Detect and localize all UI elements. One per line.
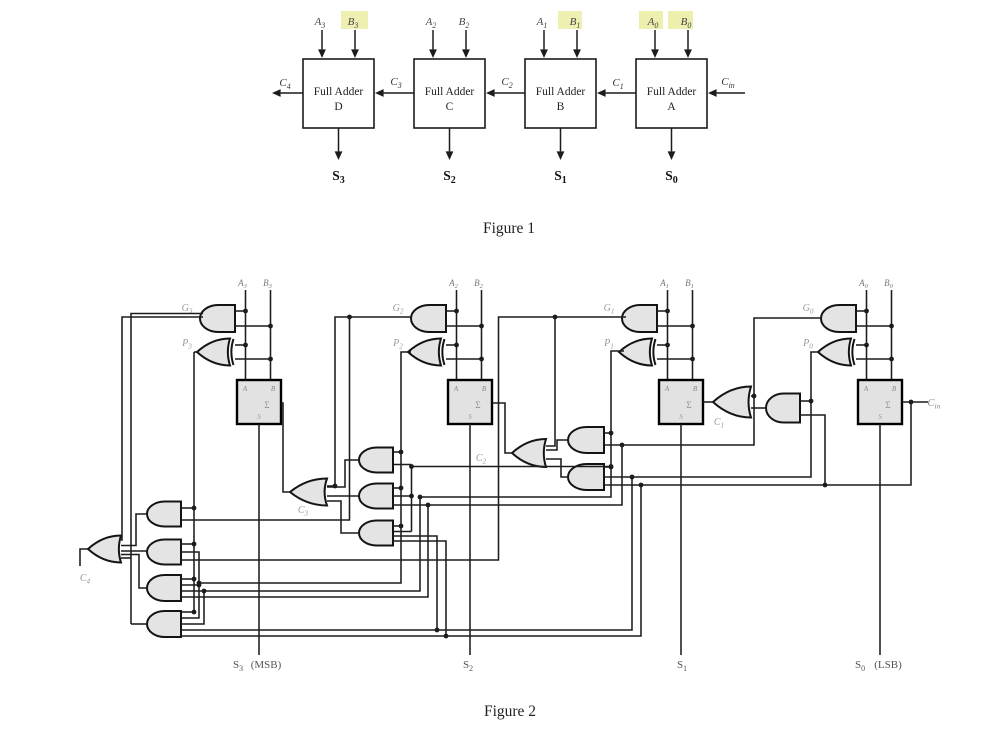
sum box bit 1: [659, 380, 703, 424]
C0 tap to AND P1P0C0: [604, 484, 641, 486]
P1 tap to AND P1G0: [604, 432, 611, 434]
sum S1 arrow: [560, 128, 562, 151]
OR gate C4: [88, 536, 121, 563]
C0 branch down: [181, 485, 641, 636]
svg-text:A: A: [242, 385, 248, 393]
G0 tap to AND P1G0: [604, 444, 622, 446]
full adder C box: [414, 59, 485, 128]
carry C1 arrow: [606, 92, 636, 94]
input B0 arrow: [687, 30, 689, 49]
OR gate C3: [290, 479, 327, 506]
svg-text:B: B: [271, 385, 276, 393]
P2 tap to AND P2G1: [393, 451, 401, 453]
P2 tap to AND P3P2P1P0C0: [181, 583, 199, 618]
input B2 arrow: [465, 30, 467, 49]
AND gate P1P0C0: [568, 464, 604, 490]
Cin wire to sum box bit0: [902, 401, 928, 403]
G0 column down: [181, 505, 428, 597]
P3 tap to AND P3P2P1P0C0: [181, 611, 194, 613]
svg-text:B: B: [557, 101, 565, 113]
AND gate P3P2P1G0: [147, 575, 181, 601]
carry Cin input arrow: [717, 92, 745, 94]
full adder A box: [636, 59, 707, 128]
input B1 arrow: [576, 30, 578, 49]
AND gate G3: [200, 305, 235, 332]
P3 tap to AND P3P2P1G0: [181, 578, 194, 580]
net G0 wire: [393, 318, 820, 505]
AND gate P3G2: [147, 502, 181, 527]
svg-text:Σ: Σ: [885, 400, 890, 410]
svg-text:A: A: [667, 101, 676, 113]
highlight on label B1: [558, 11, 582, 29]
C0 branch up to AND P2P1P0C0: [393, 541, 446, 636]
net G2 wire: [327, 317, 412, 486]
input A2 arrow: [432, 30, 434, 49]
svg-text:B: B: [482, 385, 487, 393]
svg-text:S: S: [468, 413, 472, 421]
wire AND P3P2P1P0C0 out join: [131, 623, 147, 625]
svg-text:(LSB): (LSB): [874, 659, 902, 671]
AND gate G0: [821, 305, 856, 332]
AND G0 input stubs: [856, 310, 867, 312]
P1 branch to AND P3P2P1P0C0: [181, 591, 204, 624]
AND gate P3P2P1P0C0: [147, 611, 181, 637]
wire AND P2G1 out to OR C3: [327, 460, 360, 487]
P3 tap to AND P3P2G1: [181, 543, 194, 545]
highlight on label A0: [639, 11, 663, 29]
svg-text:B: B: [693, 385, 698, 393]
svg-text:Figure 1: Figure 1: [483, 220, 535, 237]
svg-text:S: S: [257, 413, 261, 421]
net B0 vertical line: [891, 290, 893, 380]
wire AND P3P2P1G0 out to OR C4: [121, 555, 147, 589]
svg-text:Σ: Σ: [264, 400, 269, 410]
svg-text:B: B: [892, 385, 897, 393]
net C0 wire: [641, 402, 911, 485]
wire AND P3G2 out to OR C4: [121, 514, 147, 546]
sum box bit 3: [237, 380, 281, 424]
svg-text:Full Adder: Full Adder: [425, 86, 475, 98]
sum S1 output wire: [680, 424, 682, 655]
sum S2 arrow: [449, 128, 451, 151]
sum S2 output wire: [469, 424, 471, 655]
svg-text:S: S: [679, 413, 683, 421]
AND gate P1G0: [568, 427, 604, 453]
P0 tap to AND P0C0: [800, 400, 811, 402]
svg-text:Σ: Σ: [475, 400, 480, 410]
XOR P2 input stubs: [446, 344, 457, 346]
svg-text:Full Adder: Full Adder: [314, 86, 364, 98]
AND gate P3P2G1: [147, 540, 181, 565]
svg-text:A: A: [664, 385, 670, 393]
OR gate C1: [713, 387, 751, 418]
P1 stub to AND P2G1: [393, 464, 412, 466]
net P2 wire: [181, 352, 411, 583]
G2 branch to AND P3G2: [181, 317, 350, 520]
svg-text:A: A: [863, 385, 869, 393]
svg-text:Figure 2: Figure 2: [484, 703, 536, 720]
net A1 vertical line: [667, 290, 669, 380]
sum S3 arrow: [338, 128, 340, 151]
net P0 wire: [181, 352, 818, 630]
AND gate G2: [411, 305, 446, 332]
net G3 aux wire: [131, 314, 203, 625]
svg-text:S: S: [878, 413, 882, 421]
highlight on label B0: [668, 11, 693, 29]
carry C2 arrow: [495, 92, 525, 94]
svg-text:A: A: [453, 385, 459, 393]
net B1 vertical line: [692, 290, 694, 380]
P2 tap to AND P2P1G0: [393, 487, 401, 489]
wire AND P3P2G1 out to OR C4: [121, 550, 147, 552]
wire C2 out to sum box bit2: [492, 403, 513, 453]
AND G1 input stubs: [657, 310, 668, 312]
net A3 vertical line: [245, 290, 247, 380]
AND G2 input stubs: [446, 310, 457, 312]
AND gate P0C0: [766, 394, 800, 423]
net B2 vertical line: [481, 290, 483, 380]
AND G3 input stubs: [235, 310, 246, 312]
P2 tap to AND P2P1P0C0: [393, 525, 401, 527]
XOR P1 input stubs: [657, 344, 668, 346]
wire AND P0C0 out to OR C1 in: [751, 407, 767, 409]
net A0 vertical line: [866, 290, 868, 380]
wire AND P1P0C0 out to OR C2: [546, 459, 569, 477]
net G3 wire: [121, 317, 203, 540]
input A3 arrow: [321, 30, 323, 49]
OR gate C2: [512, 439, 546, 467]
XOR P0 input stubs: [856, 344, 867, 346]
svg-text:Σ: Σ: [686, 400, 691, 410]
G0 tap to OR C1: [751, 395, 754, 397]
XOR P3 input stubs: [235, 344, 246, 346]
wire C1 out to sum box bit1: [703, 401, 714, 403]
input A0 arrow: [654, 30, 656, 49]
svg-text:C: C: [446, 101, 454, 113]
P1 tap to AND P1P0C0: [604, 466, 611, 468]
wire AND P2P1P0C0 out to OR C3: [327, 501, 359, 533]
carry C4 output arrow: [281, 92, 303, 94]
full adder D box: [303, 59, 374, 128]
XOR gate P3: [197, 339, 230, 366]
net P1 wire: [181, 351, 624, 591]
input A1 arrow: [543, 30, 545, 49]
P1 corner dot: [418, 495, 423, 500]
AND gate P2P1P0C0: [359, 521, 393, 546]
net P3 wire: [193, 352, 195, 612]
svg-text:Full Adder: Full Adder: [536, 86, 586, 98]
XOR gate P2: [408, 339, 441, 366]
AND gate P2G1: [359, 448, 393, 473]
G1 tap to OR C2: [546, 317, 555, 446]
XOR gate P0: [818, 339, 851, 366]
P1 stub to AND P2P1G0: [393, 495, 412, 497]
P0 tap to AND P1P0C0: [604, 476, 632, 478]
AND gate G1: [622, 305, 657, 332]
C0 branch to AND P0C0: [800, 415, 825, 485]
net A2 vertical line: [456, 290, 458, 380]
P1 stub to AND P2P1P0C0: [393, 531, 412, 533]
P2 tap to AND P3P2P1G0: [181, 584, 199, 586]
svg-text:(MSB): (MSB): [251, 659, 282, 671]
full adder B box: [525, 59, 596, 128]
highlight on label B3: [341, 11, 368, 29]
net B3 vertical line: [270, 290, 272, 380]
wire C3 out to sum box bit3: [281, 403, 290, 492]
svg-text:Full Adder: Full Adder: [647, 86, 697, 98]
wire AND P1G0 out to OR C2: [546, 440, 569, 450]
P1 column at C3 ANDs: [411, 465, 413, 532]
P1 branch row to C3 ANDs: [412, 466, 612, 468]
sum box bit 0: [858, 380, 902, 424]
wire AND P2P1G0 out to OR C3: [327, 495, 359, 497]
wire AND P3P2P1P0C0 out to OR C4 stub: [121, 557, 131, 559]
sum S0 arrow: [671, 128, 673, 151]
svg-text:D: D: [334, 101, 342, 113]
P0 branch up to AND P2P1P0C0: [393, 536, 437, 630]
XOR gate P1: [619, 339, 652, 366]
net G1 wire: [181, 317, 626, 560]
sum S0 output wire: [879, 424, 881, 655]
AND gate P2P1G0: [359, 484, 393, 509]
input B3 arrow: [354, 30, 356, 49]
P3 tap to AND P3G2: [181, 507, 194, 509]
sum box bit 2: [448, 380, 492, 424]
G2 dot at OR C3 input: [333, 484, 338, 489]
sum S3 output wire: [258, 424, 260, 655]
C4 output stub: [80, 549, 88, 566]
carry C3 arrow: [384, 92, 414, 94]
